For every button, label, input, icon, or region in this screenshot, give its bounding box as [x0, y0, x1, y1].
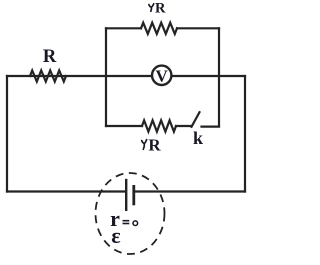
resistor R (left, middle branch) zigzag [30, 70, 66, 81]
wire: bottom branch lead to switch [176, 125, 192, 127]
label 2R (top resistor): digit drawn as path + R [149, 4, 154, 12]
wire: right outer rail [244, 76, 246, 192]
wire: bottom branch left lead [106, 125, 142, 127]
wire: left outer rail [6, 76, 8, 192]
battery short plate (negative) [132, 185, 135, 205]
switch k blade [192, 112, 200, 127]
svg-text:R: R [155, 1, 166, 17]
small circle (zero) of r = o [133, 221, 138, 226]
wire: middle horizontal branch right segment [172, 75, 245, 77]
svg-text:ε: ε [111, 223, 120, 248]
svg-text:R: R [43, 47, 57, 67]
wire: middle horizontal branch left segment [7, 75, 152, 77]
resistor 2R (top branch) zigzag [141, 23, 177, 34]
wire: top branch left lead [106, 27, 141, 29]
label 2R (bottom resistor): digit drawn as path + R [142, 140, 147, 150]
svg-text:V: V [156, 66, 169, 85]
wire: bottom right segment [135, 190, 245, 192]
wire: switch fixed contact lead [202, 125, 220, 127]
voltmeter U1 circle [152, 66, 171, 85]
svg-text:R: R [148, 135, 161, 154]
wire: bottom left segment [7, 190, 125, 192]
svg-text:k: k [193, 128, 203, 148]
wire: top branch right lead [177, 27, 219, 29]
wire: parallel box right rail [218, 28, 220, 126]
dashed ellipse around battery [96, 173, 165, 254]
wire: parallel box left rail [105, 28, 107, 126]
battery long plate (positive) [125, 179, 127, 211]
resistor 2R (bottom branch) zigzag [142, 120, 176, 131]
equals sign of r = o [123, 221, 130, 224]
